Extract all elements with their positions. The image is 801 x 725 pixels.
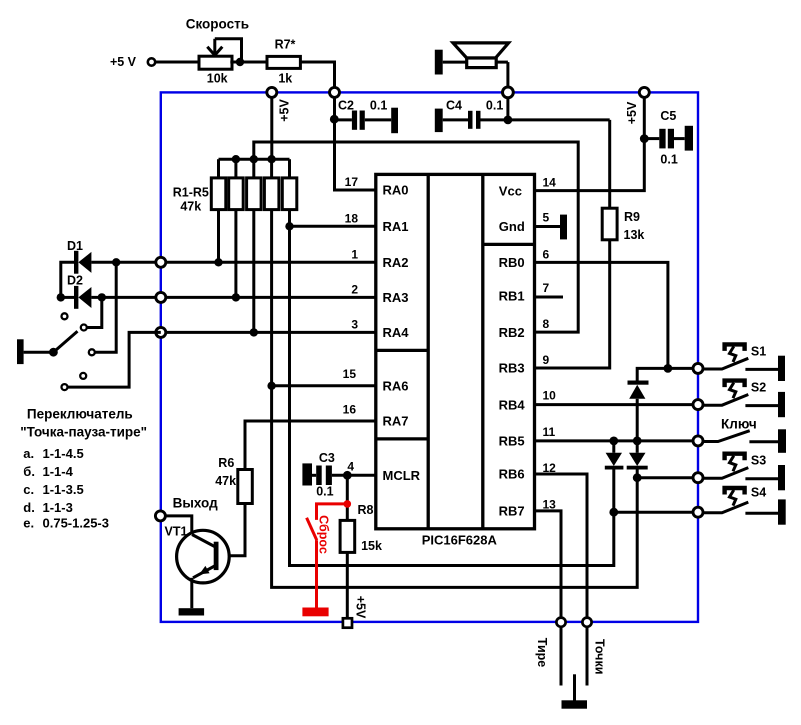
wire contact2 to D2	[87, 297, 102, 327]
svg-text:Сброс: Сброс	[316, 515, 330, 554]
svg-text:R9: R9	[624, 210, 640, 224]
svg-text:R6: R6	[218, 456, 234, 470]
svg-text:S3: S3	[751, 454, 766, 468]
svg-text:RA0: RA0	[383, 183, 409, 198]
svg-text:a.: a.	[23, 446, 34, 461]
node red tap	[344, 500, 352, 508]
ground key	[562, 700, 588, 708]
svg-text:Ключ: Ключ	[721, 417, 757, 432]
svg-text:e.: e.	[23, 515, 34, 530]
svg-text:9: 9	[543, 353, 550, 367]
node paddle contacts	[62, 313, 68, 319]
wire Vcc net	[535, 92, 645, 190]
svg-text:RA3: RA3	[383, 290, 409, 305]
switch S3	[704, 454, 785, 491]
svg-text:R8: R8	[358, 503, 374, 517]
svg-text:RA6: RA6	[383, 379, 409, 394]
wire speaker node to R9	[481, 118, 610, 121]
svg-text:Тире: Тире	[535, 638, 549, 667]
border frame	[161, 92, 698, 622]
svg-text:S1: S1	[751, 344, 766, 358]
svg-text:47k: 47k	[215, 474, 236, 488]
wire key ground stem	[573, 674, 576, 701]
resistor R2	[229, 159, 244, 297]
switch paddle common bar	[17, 339, 24, 364]
diode D4	[605, 441, 624, 470]
wire RB3 to R9	[535, 240, 610, 368]
wire RA0 vertical	[335, 92, 376, 190]
potentiometer Скорость 10k	[186, 17, 249, 86]
resistor R5	[282, 159, 297, 209]
svg-text:MCLR: MCLR	[383, 468, 421, 483]
switch S1	[704, 344, 785, 381]
svg-text:d.: d.	[23, 500, 35, 515]
terminal right border circles	[693, 363, 703, 373]
wire Gnd pin	[535, 225, 561, 228]
svg-text:15k: 15k	[361, 539, 382, 553]
wire S1 line	[637, 368, 698, 380]
svg-text:13: 13	[543, 497, 557, 511]
wire RA3 line	[161, 296, 376, 299]
svg-text:RA1: RA1	[383, 219, 409, 234]
capacitor C3 0.1	[302, 451, 335, 499]
svg-text:6: 6	[543, 247, 550, 261]
svg-text:PIC16F628A: PIC16F628A	[422, 533, 498, 548]
wire red to ground	[315, 540, 318, 607]
wire RB7 to Тире	[535, 511, 562, 686]
svg-text:5: 5	[543, 211, 550, 225]
ground Сброс red	[302, 608, 328, 617]
node speaker junction	[504, 116, 513, 125]
svg-text:RB3: RB3	[499, 361, 525, 376]
switch Ключ	[704, 417, 786, 453]
svg-text:S4: S4	[751, 486, 766, 500]
diode D5	[627, 441, 648, 478]
svg-text:Выход: Выход	[173, 495, 219, 510]
wire R9 top lead	[608, 120, 611, 208]
svg-text:Gnd: Gnd	[499, 219, 525, 234]
switch S2	[704, 381, 785, 418]
node RB5 junctions	[609, 437, 618, 446]
switch Сброс red lever	[307, 518, 317, 541]
svg-text:D1: D1	[67, 239, 83, 253]
svg-text:Переключатель: Переключатель	[27, 406, 133, 421]
wire RB1 stub	[535, 296, 564, 299]
resistor R4	[264, 159, 279, 209]
svg-text:1-1-4.5: 1-1-4.5	[43, 446, 84, 461]
wire	[230, 61, 267, 64]
node resistor junctions	[285, 222, 293, 230]
wire bus to RB2	[254, 142, 578, 332]
svg-text:C5: C5	[660, 109, 676, 123]
terminal Точки circle	[582, 618, 591, 627]
node MCLR junction	[343, 471, 352, 480]
svg-text:2: 2	[351, 282, 358, 296]
wire R4 net RA6 to S3	[272, 210, 638, 588]
svg-text:RB1: RB1	[499, 289, 525, 304]
terminal +5V input	[148, 58, 155, 65]
resistor R3	[247, 159, 262, 332]
svg-text:13k: 13k	[624, 228, 645, 242]
wire collector	[166, 516, 192, 534]
svg-text:Vcc: Vcc	[499, 183, 522, 198]
resistor R1	[211, 159, 226, 262]
ground Gnd bar	[560, 215, 567, 240]
svg-text:RA2: RA2	[383, 255, 409, 270]
svg-text:RB5: RB5	[499, 434, 525, 449]
node D-line junctions	[57, 293, 65, 301]
svg-text:3: 3	[351, 317, 358, 331]
svg-text:1: 1	[351, 247, 358, 261]
wire RB5 line	[535, 439, 699, 442]
wire MCLR	[332, 474, 376, 477]
svg-text:RA4: RA4	[383, 325, 410, 340]
wire resistor pack bus	[219, 158, 290, 161]
svg-text:0.75-1.25-3: 0.75-1.25-3	[43, 515, 110, 530]
svg-text:0.1: 0.1	[316, 484, 333, 498]
svg-text:1-1-3: 1-1-3	[43, 500, 73, 515]
node S4 junction	[609, 508, 618, 517]
svg-text:RB4: RB4	[499, 397, 526, 412]
svg-text:C2: C2	[338, 99, 354, 113]
svg-text:c.: c.	[23, 482, 34, 497]
resistor R9 13k	[602, 208, 644, 242]
svg-text:0.1: 0.1	[660, 152, 677, 166]
svg-text:15: 15	[343, 367, 357, 381]
transistor VT1	[177, 530, 230, 608]
svg-text:47k: 47k	[180, 199, 201, 213]
svg-text:17: 17	[345, 175, 359, 189]
svg-text:"Точка-пауза-тире": "Точка-пауза-тире"	[20, 424, 147, 439]
wire	[155, 61, 199, 64]
wire RA2 line	[161, 261, 376, 264]
node pot/R7 junction	[236, 58, 244, 66]
resistor R8 15k	[340, 503, 382, 618]
wire RB6 to Точки	[535, 474, 588, 686]
wire RB0 to S1 line	[535, 262, 668, 368]
svg-text:7: 7	[543, 281, 550, 295]
node S1/RB0 junction	[664, 364, 673, 373]
switch S4	[704, 486, 786, 525]
wire +5V drop to resistor bus	[270, 92, 273, 159]
svg-text:б.: б.	[23, 464, 35, 479]
svg-text:+5V: +5V	[625, 101, 639, 124]
wire RA4 line	[161, 331, 376, 334]
svg-text:+5V: +5V	[278, 99, 292, 122]
resistor R7* 1k	[267, 38, 300, 86]
svg-text:10k: 10k	[207, 72, 228, 86]
svg-text:0.1: 0.1	[370, 99, 387, 113]
wire R8 top lead	[346, 475, 349, 520]
wire R7 to border	[300, 62, 334, 92]
svg-text:1-1-3.5: 1-1-3.5	[43, 482, 84, 497]
node paddle pivot	[49, 348, 58, 357]
svg-text:10: 10	[543, 389, 557, 403]
svg-text:11: 11	[543, 425, 556, 439]
svg-text:C3: C3	[319, 451, 335, 465]
svg-text:D2: D2	[67, 273, 83, 287]
terminal Тире circle	[556, 618, 565, 627]
wire RB4 line	[535, 403, 699, 406]
terminal left border circles	[156, 257, 166, 267]
wire S3 line	[637, 476, 698, 479]
wire paddle lever	[53, 331, 77, 352]
speaker	[435, 43, 509, 120]
diode D3	[628, 381, 649, 441]
svg-text:1-1-4: 1-1-4	[43, 464, 74, 479]
svg-text:RB7: RB7	[499, 504, 525, 519]
svg-text:RB2: RB2	[499, 325, 525, 340]
wire S4 line	[614, 511, 698, 514]
svg-text:8: 8	[543, 317, 550, 331]
wire RA7 to R6	[245, 421, 376, 470]
node S3 junction	[633, 473, 642, 482]
diode D2	[61, 273, 161, 308]
capacitor C5 0.1	[644, 109, 693, 166]
terminal +5V bottom square	[343, 618, 352, 627]
capacitor C2 0.1	[334, 99, 398, 134]
node C5 junction	[640, 134, 649, 143]
svg-text:RB6: RB6	[499, 467, 525, 482]
wire contact3 to D1	[95, 262, 117, 352]
ground VT1 emitter	[179, 608, 205, 615]
op IC PIC16F628A body	[376, 174, 535, 528]
wire paddle	[24, 351, 54, 354]
wire reset red	[317, 504, 348, 520]
svg-text:+5 V: +5 V	[110, 55, 137, 69]
resistor R6 47k	[215, 456, 252, 556]
diode D1	[61, 239, 161, 298]
wire RA1	[290, 225, 376, 228]
svg-text:S2: S2	[751, 381, 766, 395]
svg-text:Точки: Точки	[593, 639, 607, 674]
svg-text:1k: 1k	[278, 72, 292, 86]
node bus dots	[232, 155, 240, 163]
wire RA6	[272, 384, 376, 387]
svg-text:14: 14	[543, 176, 557, 190]
wire R5 net RA1 to S4	[290, 210, 614, 566]
wire contact5 to RA4	[68, 332, 161, 387]
terminal top border circles	[267, 87, 277, 97]
svg-text:RB0: RB0	[499, 255, 525, 270]
svg-text:Скорость: Скорость	[186, 17, 249, 32]
svg-text:R7*: R7*	[275, 38, 296, 52]
svg-text:+5V: +5V	[353, 596, 367, 619]
svg-text:16: 16	[343, 402, 357, 416]
svg-text:RA7: RA7	[383, 414, 409, 429]
svg-text:C4: C4	[446, 98, 462, 112]
svg-text:18: 18	[345, 211, 359, 225]
node C2 junction	[330, 115, 339, 124]
svg-text:0.1: 0.1	[486, 98, 503, 112]
capacitor C4 0.1	[435, 98, 504, 132]
svg-text:R1-R5: R1-R5	[173, 185, 209, 199]
